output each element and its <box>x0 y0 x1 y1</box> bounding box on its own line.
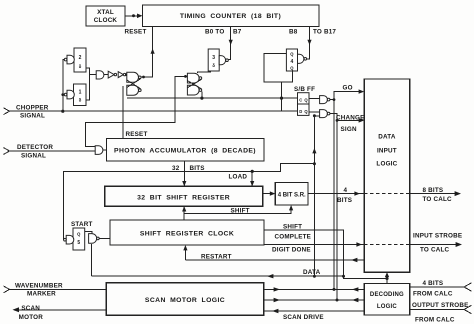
4 bit shift register box <box>275 183 308 206</box>
svg-text:DATA: DATA <box>303 269 321 276</box>
RESET vertical to photon accumulator <box>122 86 124 138</box>
svg-text:5: 5 <box>77 240 80 246</box>
label SCAN MOTOR <box>19 305 44 321</box>
svg-text:INPUT STROBE: INPUT STROBE <box>413 233 462 240</box>
wire GO <box>330 89 364 101</box>
svg-text:TIMING COUNTER (18 BIT): TIMING COUNTER (18 BIT) <box>180 13 281 20</box>
wire gate to accumulator <box>103 149 107 151</box>
svg-text:S/B FF: S/B FF <box>294 86 315 93</box>
label 4 BITS <box>337 187 352 204</box>
wire XTAL CLOCK to timing counter <box>125 14 143 19</box>
middle NAND pair lower <box>187 85 201 95</box>
svg-text:TO CALC: TO CALC <box>423 196 453 203</box>
node line C (to S/B FF C input) <box>127 97 298 100</box>
svg-text:32 BIT SHIFT REGISTER: 32 BIT SHIFT REGISTER <box>137 195 230 202</box>
detector signal input <box>4 148 96 155</box>
flip-flop FF3 <box>208 49 219 71</box>
NAND N2 (CHANGE SIGN) <box>309 110 330 118</box>
LOAD net: long line, drop to FF5 gate, arrow into shift register <box>63 164 314 240</box>
wavenumber marker input <box>4 286 107 293</box>
svg-text:CHOPPER: CHOPPER <box>16 105 49 112</box>
label INPUT STROBE / TO CALC <box>413 233 462 254</box>
timing counter U-TC <box>143 5 320 27</box>
svg-text:TO B17: TO B17 <box>313 29 336 36</box>
svg-text:SCAN MOTOR LOGIC: SCAN MOTOR LOGIC <box>145 297 225 304</box>
data input logic box <box>364 79 410 272</box>
wire 4 bits to data input logic <box>308 191 364 195</box>
S/B flip-flop box <box>298 93 310 116</box>
wire NAND latch output up to timing counter <box>141 27 155 79</box>
svg-text:δ: δ <box>212 63 215 68</box>
FF1/FF2 output rail to AND gate <box>86 68 96 100</box>
svg-text:LOGIC: LOGIC <box>377 304 397 310</box>
wire inverter chain <box>104 73 128 76</box>
wire middle NAND output down to line C <box>201 91 203 98</box>
middle NAND pair upper <box>187 73 201 83</box>
svg-text:SCAN: SCAN <box>21 305 40 312</box>
XTAL CLOCK box <box>86 6 125 26</box>
svg-text:TO CALC: TO CALC <box>420 247 450 254</box>
svg-text:RESTART: RESTART <box>201 254 232 261</box>
label 4 BITS / FROM CALC <box>413 280 453 298</box>
label SHIFT COMPLETE <box>275 223 312 240</box>
svg-text:SIGN: SIGN <box>341 126 357 133</box>
inverter INV1 <box>108 71 116 78</box>
left rail from chopper junction up to FF gates <box>61 60 64 113</box>
NAND latch A cross coupling <box>127 79 141 89</box>
wire SHIFT COMPLETE <box>264 230 389 284</box>
label 8 BITS / TO CALC <box>423 187 453 203</box>
svg-text:FROM CALC: FROM CALC <box>413 291 453 298</box>
scan motor output <box>13 307 107 312</box>
wire FF3 bottom to middle NAND <box>198 71 211 73</box>
NAND latch A lower gate <box>127 85 141 95</box>
svg-text:RESET: RESET <box>125 29 147 36</box>
NAND latch A upper gate <box>127 72 141 82</box>
wire B8 drop to FF4 gate <box>307 27 312 59</box>
svg-text:OUTPUT STROBE: OUTPUT STROBE <box>412 302 468 309</box>
bus V0 vertical <box>312 116 316 278</box>
svg-text:4 BITS: 4 BITS <box>423 280 444 287</box>
svg-text:3: 3 <box>212 55 215 61</box>
wire output strobe from calc <box>410 305 472 313</box>
svg-text:CHANGE: CHANGE <box>336 114 365 121</box>
svg-text:BITS: BITS <box>190 165 205 172</box>
svg-text:δ: δ <box>79 98 82 103</box>
wire shift register to 4 bit SR with arrow <box>263 191 276 195</box>
inverter INV2 <box>118 72 126 78</box>
svg-text:CLOCK: CLOCK <box>94 17 118 24</box>
svg-text:FROM CALC: FROM CALC <box>415 317 455 324</box>
svg-text:RESET: RESET <box>126 131 148 138</box>
svg-text:DETECTOR: DETECTOR <box>17 144 53 151</box>
svg-text:4: 4 <box>344 187 348 194</box>
svg-text:SCAN DRIVE: SCAN DRIVE <box>283 314 324 321</box>
AND gate G1 (clock combine) <box>96 71 104 79</box>
svg-text:B7: B7 <box>233 29 242 36</box>
gate at FF2 input <box>64 55 74 64</box>
svg-text:MOTOR: MOTOR <box>19 314 44 321</box>
wire SML line 2 <box>264 298 365 302</box>
gate at FF5 left <box>64 235 74 244</box>
svg-text:INPUT: INPUT <box>377 148 397 155</box>
svg-text:B0 TO: B0 TO <box>205 29 224 36</box>
svg-text:GO: GO <box>343 85 353 92</box>
label OUTPUT STROBE / FROM CALC <box>412 302 468 324</box>
svg-text:START: START <box>71 221 93 228</box>
svg-text:4: 4 <box>291 59 294 65</box>
wire RESTART <box>183 245 364 262</box>
flip-flop FF4 <box>286 49 297 71</box>
scan motor logic box <box>106 283 263 316</box>
svg-text:DATA: DATA <box>378 134 396 141</box>
svg-text:PHOTON ACCUMULATOR (8 DECADE): PHOTON ACCUMULATOR (8 DECADE) <box>114 148 256 155</box>
gate at FF3 right <box>219 56 228 65</box>
svg-text:C: C <box>299 98 302 103</box>
flip-flop FF5 <box>73 228 85 250</box>
AND gate at photon accumulator input <box>95 146 103 155</box>
middle NAND cross coupling <box>187 79 201 88</box>
svg-text:LOGIC: LOGIC <box>376 161 397 168</box>
N2 lower input from bus V0 <box>313 114 320 117</box>
wire SML line 1 <box>264 287 365 291</box>
gate at FF4 right <box>298 54 307 63</box>
svg-text:B8: B8 <box>289 29 298 36</box>
flip-flop FF1 <box>74 84 87 106</box>
svg-text:SHIFT: SHIFT <box>283 223 302 230</box>
bus V1 vertical (GO branch down) <box>333 100 336 291</box>
wire 8 bits dashed through box and out <box>364 191 461 196</box>
32 bit shift register box <box>105 186 263 206</box>
svg-text:BITS: BITS <box>337 197 352 204</box>
wire B0-B7 drop to FF3 gate <box>229 27 233 60</box>
wire CHANGE SIGN <box>330 114 364 123</box>
svg-text:SIGNAL: SIGNAL <box>21 153 46 160</box>
svg-text:COMPLETE: COMPLETE <box>275 233 312 240</box>
gate at FF5 right <box>85 232 110 244</box>
gate at FF1 input <box>64 90 74 99</box>
svg-text:8 BITS: 8 BITS <box>423 187 444 194</box>
wire 4 bits from calc <box>410 283 472 291</box>
svg-text:WAVENUMBER: WAVENUMBER <box>15 283 63 290</box>
SHIFT net: clock top to both shift registers <box>182 205 293 220</box>
DATA riser from FF5 gate <box>91 244 93 276</box>
wire 32 BITS accumulator to shift register <box>182 161 186 186</box>
photon accumulator box <box>107 139 265 162</box>
wire DIGIT DONE / INPUT STROBE <box>264 242 462 247</box>
svg-text:DIGIT DONE: DIGIT DONE <box>272 247 311 254</box>
feedback line to middle NAND and accumulator gate <box>85 75 187 147</box>
svg-text:XTAL: XTAL <box>97 9 114 16</box>
label CHOPPER SIGNAL <box>16 105 49 120</box>
decoding logic box <box>364 284 410 316</box>
wire SCAN DRIVE <box>264 309 365 313</box>
NAND N1 (GO) <box>309 96 330 104</box>
shift register clock box <box>110 220 264 245</box>
wire DATA <box>92 274 345 278</box>
svg-text:D: D <box>299 109 302 114</box>
FF4 feedback loop <box>264 54 292 112</box>
svg-text:SHIFT REGISTER CLOCK: SHIFT REGISTER CLOCK <box>140 231 234 238</box>
svg-text:MARKER: MARKER <box>27 291 56 298</box>
svg-text:SHIFT: SHIFT <box>231 207 250 214</box>
svg-text:LOAD: LOAD <box>229 174 248 181</box>
svg-text:4 BIT S.R.: 4 BIT S.R. <box>278 193 306 199</box>
flip-flop FF2 <box>74 48 86 72</box>
svg-text:32: 32 <box>172 165 180 172</box>
svg-text:1: 1 <box>79 90 82 96</box>
svg-text:δ: δ <box>79 64 82 69</box>
bus V2 vertical (CHANGE branch down) <box>336 120 339 301</box>
svg-text:SIGNAL: SIGNAL <box>20 113 45 120</box>
chopper signal input <box>4 108 298 115</box>
label WAVENUMBER MARKER <box>15 283 63 298</box>
svg-text:2: 2 <box>79 55 82 61</box>
svg-text:DECODING: DECODING <box>370 292 404 298</box>
label DETECTOR SIGNAL <box>17 144 53 160</box>
